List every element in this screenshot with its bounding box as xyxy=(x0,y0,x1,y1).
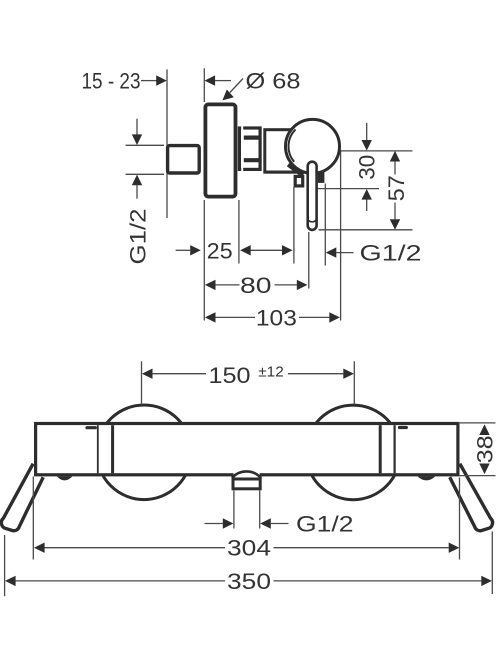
lever handle xyxy=(308,162,317,230)
body bottom edge under circle xyxy=(265,171,296,174)
handle-right extension line xyxy=(340,150,342,321)
right under-bar dome xyxy=(417,476,435,480)
svg-text:Ø 68: Ø 68 xyxy=(246,69,301,94)
bar divider right outer xyxy=(394,425,396,473)
right index tick xyxy=(400,426,407,429)
right hand lever xyxy=(450,464,493,531)
valve body xyxy=(265,130,310,172)
wall extension line xyxy=(166,69,168,218)
handle inner arc xyxy=(288,129,295,161)
dimension 150 ±12 xyxy=(142,361,355,404)
escutcheon right extension line xyxy=(238,200,240,264)
escutcheon left extension line (upper) xyxy=(203,68,205,102)
svg-text:150: 150 xyxy=(209,363,251,388)
dimension 80 xyxy=(205,273,308,298)
dimension 304 xyxy=(34,536,459,561)
dimension arrow pair between escutcheon and outlet xyxy=(240,245,293,255)
dimension 38 xyxy=(458,423,496,476)
bar divider left outer xyxy=(97,425,99,473)
svg-text:350: 350 xyxy=(227,569,271,594)
svg-text:103: 103 xyxy=(256,305,297,330)
escutcheon left extension line (lower) xyxy=(203,200,205,321)
svg-text:G1/2: G1/2 xyxy=(125,209,150,265)
dimension 25 xyxy=(176,238,233,263)
left escutcheon circle xyxy=(97,405,192,500)
svg-text:304: 304 xyxy=(227,536,271,561)
escutcheon xyxy=(205,104,235,196)
axis extension line (30/57 top) xyxy=(341,150,413,152)
outlet-left extension line xyxy=(293,187,295,264)
dimension 103 xyxy=(205,305,340,330)
dimension 350 xyxy=(5,569,492,594)
outlet-right extension line xyxy=(324,184,326,266)
lever mount wedge xyxy=(288,164,303,175)
dimension 57 xyxy=(384,151,409,230)
mixer bar body xyxy=(36,424,458,475)
dimension G1/2 bottom xyxy=(205,512,354,537)
svg-text:±12: ±12 xyxy=(258,364,283,381)
svg-text:57: 57 xyxy=(384,175,409,201)
lever mount square xyxy=(295,176,303,186)
svg-text:G1/2: G1/2 xyxy=(360,241,422,266)
bar divider left inner xyxy=(111,425,114,473)
outlet-bottom extension line (30 bottom) xyxy=(313,188,379,190)
S-union connector xyxy=(168,146,200,173)
svg-text:25: 25 xyxy=(207,238,233,263)
lever-axis extension line xyxy=(308,232,310,289)
lever-tip extension line (57 bottom) xyxy=(319,229,413,231)
outlet stub xyxy=(232,471,261,488)
svg-text:G1/2: G1/2 xyxy=(296,512,354,537)
svg-text:80: 80 xyxy=(240,273,272,298)
dimension 15-23 xyxy=(82,69,232,94)
handle circle xyxy=(286,119,340,173)
svg-text:15 - 23: 15 - 23 xyxy=(82,69,141,94)
bar divider right inner xyxy=(379,425,382,473)
bar-end extension lines xyxy=(32,477,34,560)
right escutcheon circle xyxy=(306,405,401,500)
dimension G1/2 right xyxy=(326,241,422,266)
handle-tip extension lines xyxy=(4,535,6,596)
svg-text:30: 30 xyxy=(354,155,379,180)
outlet stub extension lines xyxy=(233,491,235,529)
union nut xyxy=(239,125,260,173)
dimension G1/2 left xyxy=(125,119,164,265)
left under-bar dome xyxy=(57,476,73,480)
dimension 30 xyxy=(354,123,379,211)
lever tip inner arc xyxy=(308,219,317,222)
label Ø 68 with leader xyxy=(222,69,300,101)
outlet piece (dark) xyxy=(318,172,325,183)
left hand lever xyxy=(1,464,43,531)
left index tick xyxy=(87,426,95,429)
svg-text:38: 38 xyxy=(472,435,496,463)
